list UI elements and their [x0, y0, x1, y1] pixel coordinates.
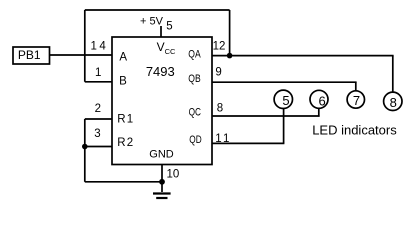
wire: vertical drop to LED 7 [355, 82, 357, 91]
wire: vertical drop to LED 8 [392, 56, 394, 92]
svg-text:6: 6 [318, 94, 325, 109]
svg-text:PB1: PB1 [18, 48, 41, 62]
pushbutton PB1 [13, 47, 50, 64]
svg-text:1: 1 [95, 67, 101, 79]
svg-text:7: 7 [353, 93, 360, 108]
svg-text:+ 5V: + 5V [140, 16, 164, 28]
svg-text:GND: GND [149, 149, 174, 161]
wire: left vertical from top rail to B input [84, 10, 86, 82]
svg-text:5: 5 [166, 21, 172, 33]
wire: vertical riser to LED 5 [283, 108, 285, 143]
wire: +5V stub to Vcc pin 5 [160, 26, 162, 37]
svg-text:12: 12 [213, 40, 226, 52]
svg-text:9: 9 [215, 66, 221, 78]
svg-text:7493: 7493 [146, 64, 175, 79]
IC U1 7493 body [112, 37, 212, 165]
svg-text:10: 10 [167, 168, 180, 180]
svg-text:R2: R2 [117, 137, 134, 149]
wire: QC pin 8 horizontal to LED 6 [212, 115, 320, 117]
svg-text:14: 14 [91, 40, 109, 52]
wire: QA pin 12 horizontal to LED 8 [212, 55, 394, 57]
wire: vertical riser to LED 6 [318, 108, 320, 116]
wire: R1-R2 tie vertical down to ground rail [84, 119, 86, 182]
wire: QD pin 11 horizontal to LED 5 [212, 142, 284, 144]
svg-text:QC: QC [189, 107, 201, 119]
wire: QB pin 9 horizontal to LED 7 [212, 81, 357, 83]
wire: pin 1 (B) horizontal [85, 81, 112, 83]
ground symbol [153, 182, 171, 198]
svg-text:QA: QA [188, 49, 201, 61]
LED indicator lamp 8 [384, 92, 402, 110]
svg-text:B: B [119, 76, 127, 88]
svg-text:2: 2 [95, 103, 101, 115]
svg-text:11: 11 [215, 133, 231, 145]
wire: top +5V/QA feedback rail horizontal [85, 9, 230, 11]
LED indicator lamp 7 [347, 91, 364, 108]
svg-text:5: 5 [282, 93, 289, 108]
svg-text:3: 3 [94, 128, 100, 140]
node: QA/+5V junction [227, 53, 233, 59]
wire: pin 3 (R2) horizontal [85, 146, 112, 148]
node: R1/R2 junction [82, 144, 88, 150]
LED indicator lamp 6 [310, 90, 328, 108]
wire: pin 10 GND stub [161, 165, 163, 182]
svg-text:QD: QD [189, 134, 201, 146]
svg-text:LED indicators: LED indicators [312, 122, 397, 137]
svg-text:A: A [119, 52, 127, 64]
LED indicator lamp 5 [274, 90, 292, 108]
wire: right vertical from top rail down to QA line [229, 10, 231, 56]
node: ground junction [159, 179, 165, 185]
wire: bottom ground rail [85, 181, 162, 183]
svg-text:8: 8 [217, 102, 223, 114]
wire: PB1 to pin 14 (A) [50, 54, 113, 56]
svg-text:8: 8 [390, 95, 397, 110]
svg-text:R1: R1 [117, 113, 134, 125]
svg-text:QB: QB [188, 73, 200, 85]
wire: pin 2 (R1) horizontal [85, 118, 112, 120]
